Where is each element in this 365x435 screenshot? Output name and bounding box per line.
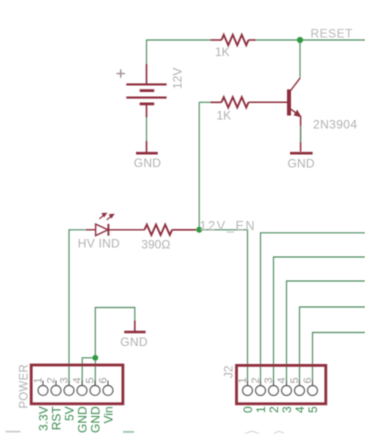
svg-text:3.3V: 3.3V: [36, 406, 50, 431]
wire net2 to J2 pin2: [261, 233, 365, 386]
svg-text:POWER: POWER: [19, 364, 31, 408]
svg-text:J2: J2: [222, 365, 236, 378]
svg-text:GND: GND: [88, 406, 102, 433]
POWER pin stubs: [43, 381, 108, 386]
POWER pin labels: [36, 406, 115, 433]
wire to R2 left: [199, 101, 210, 103]
svg-text:390Ω: 390Ω: [141, 238, 170, 252]
wire net3 to J2 pin3: [274, 257, 365, 386]
bottom edge artifact (left): [6, 431, 21, 433]
svg-text:6: 6: [302, 377, 314, 383]
svg-text:GND: GND: [134, 156, 161, 170]
J2 pin circles: [243, 386, 318, 396]
svg-text:3: 3: [263, 377, 275, 383]
battery plus sign: [117, 69, 126, 77]
wire net4 to J2 pin4: [287, 281, 365, 386]
svg-text:1: 1: [237, 377, 249, 383]
svg-text:3: 3: [59, 377, 71, 383]
svg-text:2: 2: [250, 377, 262, 383]
J2 pin numbers: [237, 377, 314, 383]
svg-text:4: 4: [293, 406, 307, 413]
svg-text:2: 2: [267, 406, 281, 413]
svg-text:5V: 5V: [62, 406, 76, 421]
resistor R1 1K: [211, 35, 256, 45]
wire 5V pin up to LED: [69, 230, 86, 386]
resistor R2 1K: [211, 97, 250, 107]
svg-text:6: 6: [98, 377, 110, 383]
wire R3 to junction to J2 pin1: [196, 230, 247, 386]
ground pin (Q1): [300, 142, 302, 152]
svg-text:GND: GND: [120, 335, 148, 349]
svg-text:3: 3: [280, 406, 294, 413]
svg-text:1K: 1K: [215, 45, 230, 59]
svg-text:1K: 1K: [217, 109, 232, 123]
wire battery top to R1 and RESET net: [147, 40, 211, 66]
junction dot (GND pins): [92, 355, 98, 361]
svg-text:RESET: RESET: [311, 27, 354, 41]
svg-text:1: 1: [254, 406, 268, 413]
wire net5 to J2 pin5: [300, 307, 365, 386]
svg-text:1: 1: [33, 377, 45, 383]
POWER pin circles: [38, 386, 113, 396]
J2 pin labels: [241, 406, 320, 413]
svg-text:5: 5: [306, 406, 320, 413]
wire junction down to Q1 collector: [299, 40, 301, 78]
POWER pin numbers: [33, 377, 110, 383]
transistor Q1 2N3904: [250, 78, 301, 126]
svg-text:5: 5: [289, 377, 301, 383]
wire R1 right to RESET junction and right edge: [256, 39, 365, 41]
svg-text:HV IND: HV IND: [78, 237, 120, 251]
svg-text:5: 5: [85, 377, 97, 383]
bottom edge artifact (green label top): [123, 431, 134, 433]
wire R2 down to 12V_EN node: [198, 102, 200, 230]
junction dot 12V_EN: [196, 227, 202, 233]
svg-text:2: 2: [46, 377, 58, 383]
junction dot RESET node: [297, 37, 303, 43]
battery V1 12V: [126, 64, 166, 118]
svg-text:12V: 12V: [170, 68, 184, 89]
connector J2 box: [237, 365, 326, 403]
J2 pin stubs: [248, 381, 313, 386]
svg-text:12V_EN: 12V_EN: [200, 219, 257, 233]
svg-text:RST: RST: [49, 406, 63, 431]
wire net6 to J2 pin6: [313, 333, 365, 386]
svg-text:Vin: Vin: [101, 406, 115, 423]
wire battery to GND: [146, 118, 148, 142]
ground (Q1 emitter): [290, 152, 313, 155]
ground (battery): [136, 152, 158, 155]
ground (mid): [124, 331, 145, 334]
svg-text:GND: GND: [75, 406, 89, 433]
bottom edge artifact (center-right): [245, 431, 284, 434]
svg-text:4: 4: [276, 377, 288, 383]
ground pin (mid): [134, 321, 136, 332]
resistor R3 390ohm: [145, 225, 197, 235]
svg-text:0: 0: [241, 406, 255, 413]
LED arrows: [99, 213, 113, 220]
connector POWER box: [31, 365, 123, 404]
emitter arrowhead: [294, 110, 302, 118]
svg-text:GND: GND: [288, 157, 315, 171]
wire emitter to ground: [300, 126, 302, 142]
wire GND to POWER pins 4,5: [82, 308, 135, 386]
ground pin (battery): [146, 141, 148, 153]
svg-text:2N3904: 2N3904: [313, 117, 357, 131]
svg-text:4: 4: [72, 377, 84, 383]
LED HV IND: [86, 224, 145, 236]
